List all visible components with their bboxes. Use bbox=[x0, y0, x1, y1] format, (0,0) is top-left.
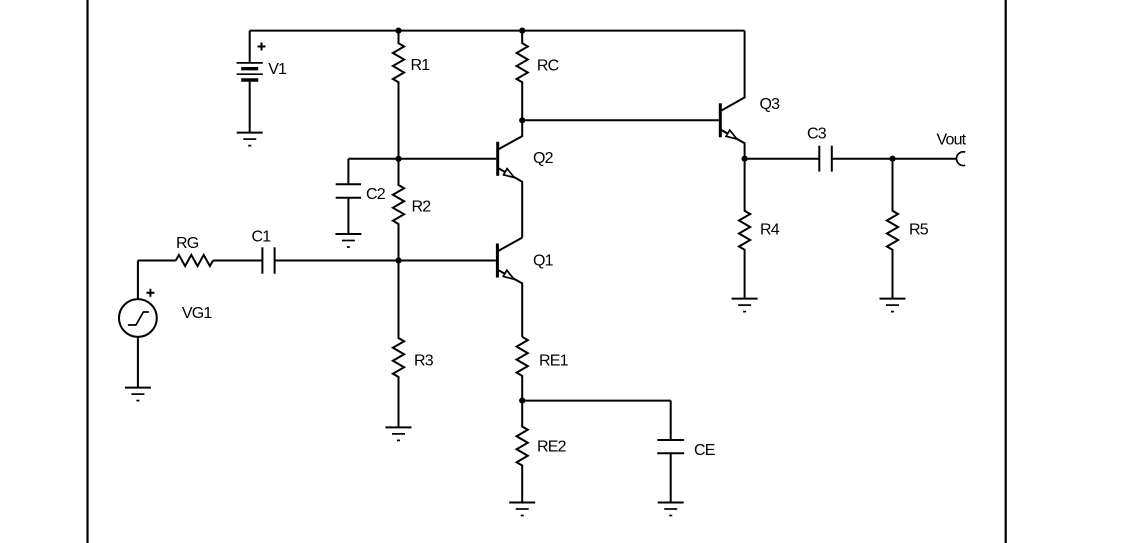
resistor RG bbox=[176, 235, 213, 266]
wire VG1 to RG bbox=[138, 260, 176, 262]
node junction dot R2/R3/Q1 base bbox=[395, 257, 401, 263]
svg-text:RC: RC bbox=[537, 58, 559, 75]
wire R1 bottom node to Q2 base bbox=[399, 158, 497, 160]
resistor RC bbox=[517, 31, 559, 121]
Vout output terminal bbox=[937, 132, 967, 166]
ground below RE2 bbox=[509, 503, 535, 516]
svg-text:C3: C3 bbox=[807, 126, 827, 143]
node junction dot R1/R2/C2 bbox=[395, 156, 401, 162]
wire R5 node to Vout terminal bbox=[893, 158, 957, 160]
ground below VG1 bbox=[125, 388, 151, 401]
wire C1 to R3 node bbox=[275, 260, 399, 262]
svg-text:Q2: Q2 bbox=[533, 150, 554, 167]
svg-text:VG1: VG1 bbox=[182, 305, 213, 322]
svg-text:R4: R4 bbox=[760, 222, 780, 239]
transistor Q2 bbox=[498, 120, 554, 237]
resistor RE2 bbox=[517, 401, 567, 503]
node junction dot R5 top bbox=[889, 156, 895, 162]
svg-text:RE1: RE1 bbox=[539, 353, 569, 370]
wire RG to C1 bbox=[213, 260, 262, 262]
source VG1 bbox=[119, 261, 212, 388]
wire top supply rail bbox=[250, 30, 745, 32]
resistor R5 bbox=[887, 159, 929, 299]
resistor R4 bbox=[739, 159, 780, 299]
ground below R3 bbox=[386, 427, 412, 440]
capacitor CE bbox=[657, 401, 715, 503]
wire RE1 bottom to CE bbox=[522, 400, 671, 402]
wire node to Q1 base bbox=[399, 260, 496, 262]
ground below C2 bbox=[335, 234, 361, 247]
capacitor C3 bbox=[807, 126, 832, 172]
resistor RE1 bbox=[517, 337, 569, 401]
svg-text:R2: R2 bbox=[412, 199, 432, 216]
ground below V1 bbox=[237, 133, 263, 146]
svg-text:CE: CE bbox=[694, 442, 715, 459]
ground below R4 bbox=[732, 299, 758, 312]
svg-text:RG: RG bbox=[176, 235, 199, 252]
svg-text:V1: V1 bbox=[268, 61, 287, 78]
node junction dot at RC top bbox=[519, 28, 525, 34]
capacitor C2 bbox=[336, 159, 386, 234]
node junction dot RC bottom / Q3 base net bbox=[519, 117, 525, 123]
svg-text:R3: R3 bbox=[414, 353, 434, 370]
svg-text:C2: C2 bbox=[366, 186, 386, 203]
capacitor C1 bbox=[252, 229, 275, 274]
svg-text:Vout: Vout bbox=[937, 132, 967, 149]
ground below CE bbox=[658, 503, 684, 516]
svg-text:R5: R5 bbox=[909, 222, 929, 239]
node junction dot at R1 top bbox=[395, 28, 401, 34]
wire Q3 emitter to C3 bbox=[745, 158, 820, 160]
svg-text:Q1: Q1 bbox=[533, 253, 554, 270]
transistor Q3 bbox=[720, 31, 780, 159]
wire C3 to R5 node bbox=[832, 158, 893, 160]
ground below R5 bbox=[880, 299, 906, 312]
wire node to C2 bbox=[348, 158, 398, 160]
svg-text:R1: R1 bbox=[411, 57, 431, 74]
resistor R2 bbox=[393, 159, 431, 261]
svg-text:Q3: Q3 bbox=[760, 96, 781, 113]
node junction dot Q3 emitter bbox=[742, 156, 748, 162]
node junction dot RE1 bottom bbox=[519, 398, 525, 404]
svg-text:C1: C1 bbox=[252, 229, 272, 246]
svg-text:RE2: RE2 bbox=[537, 439, 567, 456]
resistor R1 bbox=[393, 31, 430, 159]
battery V1 bbox=[237, 31, 287, 133]
resistor R3 bbox=[393, 261, 434, 428]
transistor Q1 bbox=[497, 238, 553, 337]
wire RC bottom to Q3 base bbox=[522, 119, 719, 121]
